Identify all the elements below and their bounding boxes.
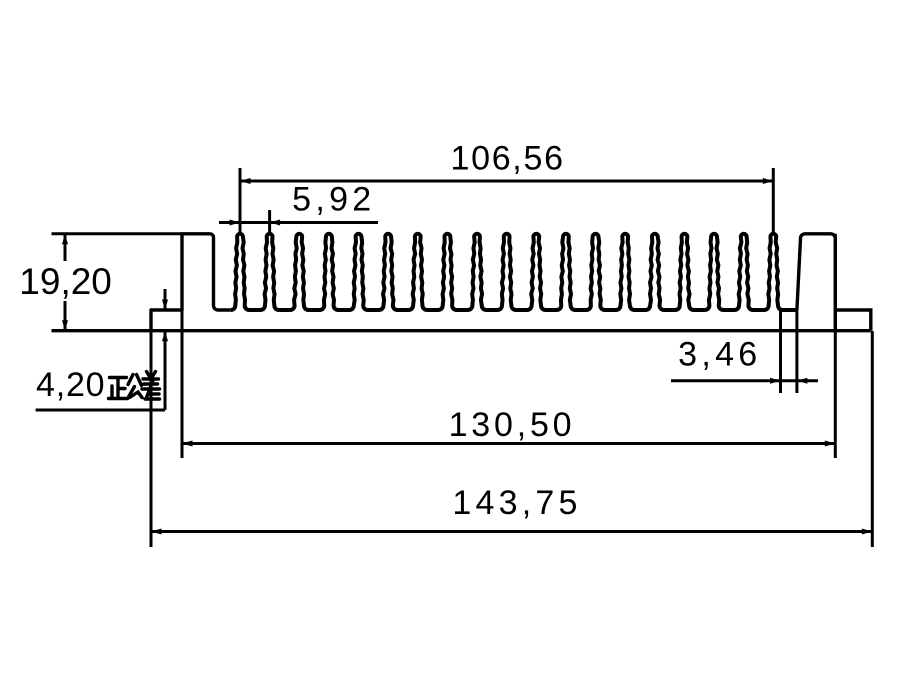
svg-text:143,75: 143,75: [452, 484, 581, 522]
svg-text:4,20: 4,20: [36, 366, 105, 404]
svg-text:130,50: 130,50: [449, 406, 576, 444]
svg-text:5,92: 5,92: [292, 181, 375, 219]
svg-text:3,46: 3,46: [678, 336, 761, 374]
svg-text:19,20: 19,20: [19, 261, 112, 302]
svg-text:106,56: 106,56: [450, 139, 564, 177]
